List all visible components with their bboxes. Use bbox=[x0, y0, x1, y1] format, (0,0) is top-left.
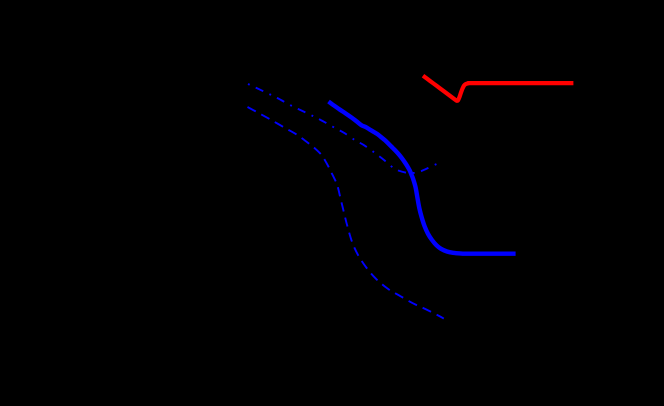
curve: blue dash-dot (thin) bbox=[248, 84, 441, 173]
curve: blue dashed (thin) bbox=[248, 107, 444, 319]
curve: red solid bbox=[423, 76, 573, 101]
curve: blue thick solid bbox=[329, 102, 516, 254]
